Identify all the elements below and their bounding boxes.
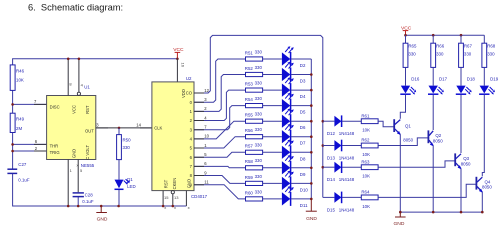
- LED D8: [282, 140, 306, 162]
- wire D7 cathode: [291, 136, 311, 138]
- wire D10 cathode: [291, 182, 311, 184]
- transistor Q3 8050: [455, 153, 471, 169]
- wire Q1 emitter: [399, 134, 401, 212]
- wire VCC bus right: [406, 34, 485, 36]
- wire THR net: [13, 143, 47, 145]
- svg-text:CD4017: CD4017: [191, 194, 208, 199]
- wire bus to R67: [460, 35, 462, 43]
- svg-text:C VOLT: C VOLT: [85, 145, 90, 160]
- node diode rail junction D13: [322, 144, 325, 147]
- node cathode junction y183: [310, 182, 313, 185]
- svg-text:D13: D13: [327, 156, 336, 161]
- wire Q0 to R51: [194, 59, 246, 102]
- svg-text:R62: R62: [361, 138, 370, 143]
- pin 8 GND stub: [185, 191, 187, 206]
- transistor Q2 8050: [428, 130, 443, 146]
- pin 14 stub: [136, 123, 152, 128]
- wire D13 to R62: [342, 145, 361, 147]
- node THR junction: [11, 143, 14, 146]
- transistor Q1 8050: [394, 119, 413, 142]
- node DISC junction: [11, 103, 14, 106]
- node OUT junction: [118, 127, 121, 130]
- svg-text:330: 330: [464, 51, 472, 56]
- svg-text:1N4148: 1N4148: [339, 156, 355, 161]
- node cathode junction y168: [310, 167, 313, 170]
- wire R52 to D3: [263, 74, 282, 76]
- wire Q5 to R56: [194, 137, 246, 148]
- node VCC bus junction x433: [432, 34, 435, 37]
- resistor R60: [245, 189, 263, 201]
- wire rail to D15: [323, 196, 335, 198]
- wire emitter bus: [400, 211, 482, 213]
- svg-text:13: 13: [174, 195, 179, 200]
- node pin1 bus junction: [67, 205, 70, 208]
- svg-text:10K: 10K: [362, 174, 370, 179]
- pin 6 stub: [34, 143, 47, 145]
- wire rail to D14: [323, 166, 335, 168]
- wire R58 to D9: [263, 167, 282, 169]
- wire Q3 to R54: [194, 106, 246, 130]
- resistor R58: [245, 158, 263, 170]
- wire R59 to D10: [263, 182, 282, 184]
- LED D9: [282, 155, 306, 177]
- svg-text:C27: C27: [18, 162, 27, 167]
- svg-text:10K: 10K: [362, 204, 370, 209]
- node VCC bus junction x461: [460, 34, 463, 37]
- svg-text:1N4148: 1N4148: [339, 131, 355, 136]
- wire Q2 to R53: [194, 90, 246, 120]
- svg-text:330: 330: [487, 51, 495, 56]
- svg-text:NE555: NE555: [81, 163, 95, 168]
- wire TRIG net: [13, 150, 47, 152]
- svg-text:CLK: CLK: [154, 126, 162, 131]
- wire OUT to CLK: [96, 127, 152, 129]
- svg-text:R65: R65: [408, 43, 417, 48]
- svg-text:D15: D15: [327, 207, 336, 212]
- wire Q4 to R55: [194, 121, 246, 139]
- pin 1 GND stub: [68, 160, 72, 207]
- svg-text:D9: D9: [300, 172, 306, 177]
- svg-text:D6: D6: [300, 125, 306, 130]
- wire R67 to D18: [460, 67, 462, 85]
- svg-text:11: 11: [204, 180, 209, 185]
- wire R54 to D5: [263, 105, 282, 107]
- resistor R46: [10, 65, 24, 91]
- svg-text:10K: 10K: [16, 78, 24, 83]
- svg-text:330: 330: [255, 65, 263, 70]
- wire Q9 to R60: [194, 185, 246, 199]
- wire left rail lower: [13, 173, 187, 206]
- LED D3: [282, 62, 306, 84]
- node C28 bus junction: [77, 205, 80, 208]
- svg-text:330: 330: [255, 189, 263, 194]
- svg-text:0.1uF: 0.1uF: [82, 199, 94, 204]
- svg-text:VCC: VCC: [72, 105, 77, 114]
- wire R61 to Q1 base: [378, 121, 394, 127]
- svg-text:R54: R54: [245, 97, 254, 102]
- pin 8 VCC stub: [68, 59, 72, 96]
- wire R63 to Q3 base: [378, 161, 455, 167]
- IC U2 CD4017 body: [152, 76, 208, 199]
- transistor Q4 8050: [476, 177, 492, 193]
- node emitter bus junction x461: [460, 211, 463, 214]
- svg-text:D11: D11: [300, 203, 308, 208]
- svg-text:R61: R61: [361, 113, 370, 118]
- wire Q1 to R52: [194, 75, 246, 112]
- wire Q4 emitter: [481, 192, 483, 212]
- resistor R53: [245, 81, 263, 93]
- LED D4: [282, 77, 306, 99]
- svg-text:Q2: Q2: [435, 133, 441, 138]
- svg-text:8050: 8050: [403, 138, 413, 143]
- node cathode junction y121: [310, 120, 313, 123]
- svg-text:x: x: [164, 205, 166, 210]
- pin 7 stub: [34, 103, 47, 105]
- svg-text:8050: 8050: [461, 161, 471, 166]
- resistor R50: [117, 135, 132, 160]
- wire bus to R68: [483, 35, 485, 43]
- svg-text:D10: D10: [300, 187, 309, 192]
- node emitter bus junction x482: [481, 211, 484, 214]
- svg-text:1N4148: 1N4148: [339, 177, 355, 182]
- svg-text:330: 330: [255, 158, 263, 163]
- capacitor C27: [7, 162, 29, 182]
- svg-text:330: 330: [255, 81, 263, 86]
- wire D18 cathode to Q3: [460, 95, 462, 153]
- wire left rail: [12, 90, 14, 169]
- LED D2: [282, 46, 306, 68]
- wire R56 to D7: [263, 136, 282, 138]
- svg-text:R58: R58: [245, 159, 254, 164]
- LED D10: [282, 171, 309, 193]
- LED D5: [282, 93, 306, 115]
- pin 3 stub: [96, 123, 108, 128]
- svg-text:D2: D2: [300, 63, 306, 68]
- node pin4 junction: [78, 58, 81, 61]
- svg-text:GND: GND: [97, 217, 108, 223]
- wire D11 cathode: [291, 198, 311, 200]
- svg-text:10K: 10K: [362, 152, 370, 157]
- LED D19: [479, 77, 499, 95]
- svg-text:CKEN: CKEN: [172, 178, 177, 190]
- wire R62 to Q2 base: [378, 138, 428, 146]
- svg-text:Q4: Q4: [485, 179, 491, 184]
- wire D15 to R64: [342, 196, 361, 198]
- diode D15 1N4148: [327, 192, 355, 213]
- wire D8 cathode: [291, 151, 311, 153]
- svg-text:0.1uF: 0.1uF: [18, 177, 30, 182]
- svg-text:D7: D7: [300, 141, 306, 146]
- resistor R66: [431, 43, 445, 67]
- wire LED cathode chain: [310, 59, 312, 199]
- resistor R51: [245, 49, 263, 61]
- ground GND left: [96, 206, 108, 223]
- svg-text:330: 330: [255, 127, 263, 132]
- node CKEN bus junction: [172, 205, 175, 208]
- svg-text:8050: 8050: [433, 138, 443, 143]
- svg-text:R46: R46: [16, 68, 25, 73]
- svg-text:RST: RST: [85, 105, 90, 114]
- wire D4 cathode: [291, 89, 311, 91]
- wire D19 cathode to Q4: [482, 95, 484, 177]
- svg-text:D4: D4: [300, 94, 306, 99]
- node cathode junction y90: [310, 89, 313, 92]
- svg-text:330: 330: [255, 112, 263, 117]
- LED D7: [282, 124, 306, 146]
- node cathode junction y199: [310, 198, 313, 201]
- svg-text:R59: R59: [245, 175, 254, 180]
- svg-text:R64: R64: [361, 190, 370, 195]
- resistor R67: [459, 43, 473, 67]
- node cathode junction y106: [310, 104, 313, 107]
- wire D14 to R63: [342, 166, 361, 168]
- svg-text:D8: D8: [300, 156, 306, 161]
- svg-text:R68: R68: [487, 43, 496, 48]
- node diode rail junction D12: [322, 120, 325, 123]
- LED D1: [115, 177, 136, 189]
- svg-text:330: 330: [408, 51, 416, 56]
- wire Q8 to R59: [194, 176, 246, 184]
- svg-text:R57: R57: [245, 144, 254, 149]
- svg-text:330: 330: [255, 96, 263, 101]
- wire rail to D13: [323, 145, 335, 147]
- wire D2 cathode: [291, 58, 311, 60]
- LED D6: [282, 108, 306, 130]
- svg-text:x: x: [188, 205, 190, 210]
- svg-text:R51: R51: [245, 50, 254, 55]
- wire Q2 emitter: [432, 146, 434, 213]
- svg-text:2M: 2M: [16, 126, 22, 131]
- svg-text:R49: R49: [16, 117, 25, 122]
- svg-text:16: 16: [181, 63, 186, 68]
- svg-text:D12: D12: [327, 131, 336, 136]
- svg-text:R63: R63: [361, 159, 370, 164]
- wire CO route to diode rail: [194, 35, 323, 197]
- diode D12 1N4148: [327, 115, 355, 136]
- resistor R68: [482, 43, 496, 67]
- resistor R49: [10, 113, 24, 132]
- op-amp U1 NE555 body: [47, 84, 96, 168]
- svg-text:R56: R56: [245, 128, 254, 133]
- wire D12 to R61: [342, 120, 361, 122]
- node TRIG junction: [11, 150, 14, 153]
- node VCC bus junction x406: [404, 34, 407, 37]
- LED D16: [400, 77, 420, 95]
- svg-text:CO: CO: [186, 91, 193, 96]
- svg-text:GND: GND: [72, 149, 77, 158]
- svg-text:D17: D17: [439, 77, 448, 82]
- wire R53 to D4: [263, 89, 282, 91]
- svg-text:1N4148: 1N4148: [339, 207, 355, 212]
- svg-text:D18: D18: [467, 77, 476, 82]
- svg-text:14: 14: [136, 123, 141, 128]
- ground GND right: [394, 212, 406, 227]
- LED D17: [428, 77, 448, 95]
- wire D1 to bus: [118, 190, 120, 206]
- wire D16 cathode to Q1: [400, 95, 405, 119]
- wire DISC net: [13, 103, 47, 105]
- svg-text:D5: D5: [300, 110, 306, 115]
- wire D9 cathode: [291, 167, 311, 169]
- pin 2 stub: [34, 150, 47, 152]
- wire OUT branch down: [118, 128, 120, 135]
- svg-text:C28: C28: [85, 193, 94, 198]
- capacitor C28: [73, 193, 94, 205]
- resistor R61: [361, 113, 378, 132]
- resistor R56: [245, 127, 263, 139]
- node D1 bus junction: [117, 205, 120, 208]
- wire top bus left: [13, 59, 178, 65]
- diode D13 1N4148: [327, 140, 355, 161]
- svg-text:330: 330: [255, 143, 263, 148]
- wire R51 to D2: [263, 58, 282, 60]
- svg-text:THR: THR: [50, 143, 59, 148]
- svg-text:330: 330: [255, 49, 263, 54]
- node GND tap junction: [100, 205, 103, 208]
- wire D3 cathode: [291, 74, 311, 76]
- wire D5 cathode: [291, 105, 311, 107]
- svg-text:R55: R55: [245, 113, 254, 118]
- node VCC junction: [176, 58, 179, 61]
- power VCC right: [401, 25, 412, 35]
- svg-text:R66: R66: [436, 43, 445, 48]
- pin 5 CVOLT stub: [78, 160, 83, 207]
- diode D14 1N4148: [327, 161, 355, 182]
- svg-text:D1: D1: [127, 177, 133, 182]
- svg-text:R53: R53: [245, 82, 254, 87]
- wire R57 to D8: [263, 151, 282, 153]
- svg-text:10: 10: [204, 134, 209, 139]
- wire R66 to D17: [432, 67, 434, 85]
- node emitter bus junction x400: [399, 211, 402, 214]
- wire R68 to D19: [483, 67, 485, 85]
- svg-text:6. Schematic diagram:: 6. Schematic diagram:: [28, 3, 123, 13]
- wire R60 to D11: [263, 198, 282, 200]
- resistor R55: [245, 112, 263, 124]
- node diode rail junction D14: [322, 166, 325, 169]
- svg-text:U2: U2: [186, 76, 192, 81]
- wire R50 to D1: [118, 160, 120, 180]
- pin 15 RST stub: [163, 191, 169, 206]
- resistor R64: [361, 190, 378, 209]
- svg-text:OUT: OUT: [85, 128, 94, 133]
- wire bus to R66: [432, 35, 434, 43]
- svg-text:330: 330: [123, 145, 131, 150]
- node emitter bus junction x433: [432, 211, 435, 214]
- power VCC 555/4017: [173, 47, 184, 59]
- svg-text:10K: 10K: [362, 128, 370, 133]
- svg-text:LED: LED: [127, 184, 136, 189]
- node cathode junction y152: [310, 151, 313, 154]
- wire rail to D12: [323, 120, 335, 122]
- svg-text:x: x: [174, 205, 176, 210]
- wire Q6 to R57: [194, 152, 246, 157]
- svg-text:D14: D14: [327, 177, 336, 182]
- wire Q7 to R58: [194, 166, 246, 167]
- wire D6 cathode: [291, 120, 311, 122]
- svg-text:RST: RST: [164, 179, 169, 188]
- resistor R63: [361, 159, 378, 178]
- wire R55 to D6: [263, 120, 282, 122]
- resistor R54: [245, 96, 263, 108]
- svg-text:R67: R67: [464, 43, 473, 48]
- node cathode junction y137: [310, 135, 313, 138]
- pin 16 VDD stub: [177, 59, 185, 82]
- node pin8 junction: [67, 58, 70, 61]
- svg-text:8050: 8050: [482, 185, 492, 190]
- resistor R52: [245, 65, 263, 77]
- svg-text:D16: D16: [411, 77, 420, 82]
- svg-text:DISC: DISC: [50, 104, 60, 109]
- svg-text:Q1: Q1: [405, 123, 411, 128]
- wire R65 to D16: [405, 67, 407, 85]
- pin stubs right side CD4017: [194, 93, 204, 185]
- wire bus to R65: [405, 35, 407, 43]
- ground GND mid: [306, 199, 318, 222]
- wire Q3 emitter: [460, 169, 462, 213]
- svg-text:U1: U1: [84, 84, 90, 89]
- svg-text:330: 330: [436, 51, 444, 56]
- LED D11: [282, 186, 308, 208]
- wire D17 cathode to Q2: [432, 95, 434, 130]
- svg-text:TRIG: TRIG: [50, 150, 60, 155]
- resistor R65: [403, 43, 417, 67]
- svg-text:R60: R60: [245, 190, 254, 195]
- resistor R57: [245, 143, 263, 155]
- svg-text:R50: R50: [123, 137, 132, 142]
- svg-text:GND: GND: [394, 221, 405, 227]
- pin 4 RST stub with bubble: [77, 59, 83, 96]
- LED D18: [456, 77, 476, 95]
- svg-text:R52: R52: [245, 66, 254, 71]
- resistor R62: [361, 138, 378, 157]
- wire R64 to Q4 base: [378, 184, 476, 197]
- svg-text:330: 330: [255, 174, 263, 179]
- svg-text:GND: GND: [306, 216, 317, 222]
- svg-text:D3: D3: [300, 79, 306, 84]
- svg-text:D19: D19: [490, 77, 499, 82]
- node cathode junction y74: [310, 73, 313, 76]
- resistor R59: [245, 174, 263, 186]
- pin 13 CKEN stub with bubble: [171, 191, 179, 206]
- svg-text:15: 15: [164, 195, 169, 200]
- svg-text:Q3: Q3: [463, 156, 469, 161]
- node RST bus junction: [162, 205, 165, 208]
